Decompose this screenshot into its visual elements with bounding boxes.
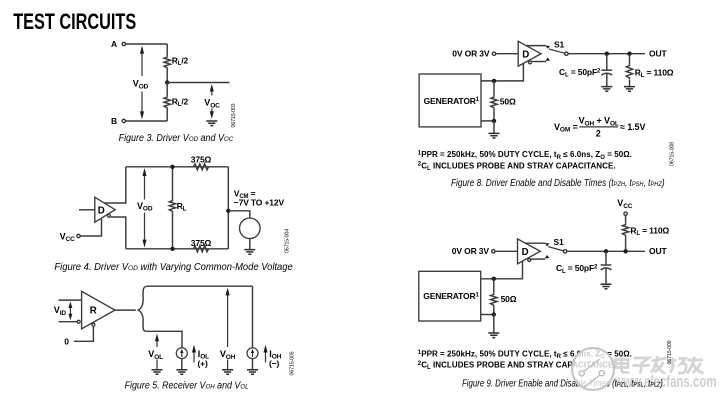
svg-text:Figure 3. Driver VOD and VOC: Figure 3. Driver VOD and VOC [119,131,234,142]
VOC arrow up [211,91,213,96]
svg-text:2: 2 [596,128,601,138]
svg-text:06715-009: 06715-009 [667,340,673,364]
svg-text:(+): (+) [198,359,208,369]
svg-text:VOH + VOL: VOH + VOL [579,116,619,128]
ground generator [488,333,499,338]
junction CL [605,52,609,56]
wire top rail [147,285,253,287]
VID arrow [69,307,71,316]
svg-text:375Ω: 375Ω [191,154,212,164]
resistor 375 bottom [193,246,208,252]
watermark char dian [616,357,630,373]
svg-text:50Ω: 50Ω [500,96,516,106]
resistor RL/2 upper [164,56,170,68]
terminal A [122,42,125,45]
svg-text:−7V TO +12V: −7V TO +12V [234,197,285,207]
ground VOH [222,370,233,375]
wire generator top [481,64,523,81]
wire bottom branch [147,331,182,347]
VOH arrow [227,295,229,348]
svg-text:RL = 110Ω: RL = 110Ω [635,67,674,79]
watermark char zi [633,358,650,374]
capacitor CL [601,264,612,266]
watermark char you [687,357,704,374]
wire output [115,309,136,311]
wire generator top [481,261,523,279]
svg-text:VOD: VOD [133,79,149,91]
wire to ground [493,315,495,333]
VOC arrow down [211,109,213,113]
terminal input [492,52,495,55]
svg-text:VOH: VOH [220,349,236,361]
svg-text:VCC: VCC [617,198,633,210]
svg-text:06715-003: 06715-003 [231,103,237,127]
wire R1 to junction [166,69,168,83]
wire VCC to triangle [80,219,101,236]
svg-text:0: 0 [64,337,69,347]
input wire [79,209,95,211]
VOD arrow [144,174,146,242]
svg-text:GENERATOR1: GENERATOR1 [423,291,479,301]
bubble input [77,320,80,323]
watermark ring logo [572,348,614,390]
wire CL to ground [605,269,607,284]
wire RL to junction [625,236,627,251]
ground IOL [176,370,187,375]
wire IOL to ground [181,359,183,370]
switch throw top [546,46,551,49]
wire top corner down to R1 [166,44,168,56]
svg-text:(−): (−) [269,359,279,369]
wire bottom corner to B [126,120,168,122]
svg-text:S1: S1 [554,237,565,247]
wire A to top corner [126,43,168,45]
svg-text:06715-005: 06715-005 [290,351,296,375]
wire to CL [606,54,608,70]
svg-text:VOM =: VOM = [554,122,578,134]
wire bottom rail [126,248,229,250]
svg-text:1PPR = 250kHz, 50% DUTY CYCLE,: 1PPR = 250kHz, 50% DUTY CYCLE, tR ≤ 6.0n… [418,150,632,161]
resistor RL/2 lower [164,96,170,109]
svg-text:VID: VID [54,305,67,317]
wire enable to 0 [74,327,94,342]
bubble enable [92,323,95,326]
watermark plug pin right [584,375,600,388]
capacitor CL [601,69,612,71]
svg-text:GENERATOR1: GENERATOR1 [424,96,480,106]
IOH arrow [265,352,267,363]
junction 50 bottom [492,312,496,316]
svg-text:0V OR 3V: 0V OR 3V [452,246,490,256]
resistor RL [622,224,628,237]
wire input [495,250,517,252]
svg-text:50Ω: 50Ω [501,294,517,304]
wire 50 bottom [493,306,495,314]
source VCM circle [240,218,261,239]
wire to 50 [493,81,495,96]
svg-text:TEST CIRCUITS: TEST CIRCUITS [13,9,136,34]
output bubble [107,214,110,217]
svg-text:Figure 5. Receiver VOH and VOL: Figure 5. Receiver VOH and VOL [125,380,249,390]
wire right drop [252,286,254,348]
resistor RL [169,200,175,213]
wire input [496,53,518,55]
svg-text:CL = 50pF2: CL = 50pF2 [559,67,601,79]
VOD arrow [141,52,143,113]
svg-text:2CL INCLUDES PROBE AND STRAY C: 2CL INCLUDES PROBE AND STRAY CAPACITANCE… [418,161,616,172]
wire to OUT [568,53,645,55]
node VCM junction [226,209,230,213]
svg-text:OUT: OUT [649,246,667,256]
output bubble [528,61,531,64]
driver D triangle U1 [95,197,115,222]
wire input bottom [59,321,77,323]
watermark char fa [651,356,667,374]
wire bottom output [111,217,126,249]
svg-text:S1: S1 [554,39,565,49]
svg-text:RL/2: RL/2 [172,55,189,67]
svg-text:RL/2: RL/2 [172,96,189,108]
switch lever S1 [548,247,563,251]
current source IOH [247,348,258,359]
wire generator bottom [481,120,494,122]
svg-text:Figure 9. Driver Enable and Di: Figure 9. Driver Enable and Disable Time… [462,378,663,389]
svg-text:06715-008: 06715-008 [670,142,676,166]
wire to OUT [567,250,645,252]
junction 50 top [492,277,496,281]
wire to CL [605,251,607,264]
wire input top [59,299,82,301]
ground VOL [152,370,163,375]
junction RL [627,52,631,56]
wire junction to right [167,82,229,84]
wire generator bottom [481,314,494,316]
ground fig3 [206,121,217,126]
wire to ground [493,121,495,133]
driver D triangle U4 [518,239,541,264]
resistor 50 [491,96,497,109]
switch throw top [545,243,550,246]
ground CL [601,87,612,92]
receiver R triangle U2 [82,291,115,329]
ground fig4 [244,250,255,255]
switch pole terminal [563,250,566,253]
resistor RL [626,64,632,79]
driver D triangle U3 [518,41,541,66]
svg-text:OUT: OUT [649,49,667,59]
ground CL [601,284,612,289]
watermark char shao [669,358,687,374]
svg-text:B: B [111,116,117,126]
svg-text:RL: RL [177,201,187,213]
svg-text:VOD: VOD [137,201,153,213]
wire bottom output [532,61,546,63]
wire to 50 [493,279,495,294]
wire source to ground [249,239,251,250]
wire CL to ground [606,74,608,87]
resistor 375 top [193,164,208,170]
generator box [419,271,481,321]
terminal VCC [77,234,80,237]
junction RL [623,249,627,253]
svg-text:≈ 1.5V: ≈ 1.5V [620,122,645,132]
switch throw bottom [546,57,551,60]
output bubble [528,259,531,262]
ground IOH [247,370,258,375]
resistor 50 [491,294,497,307]
svg-text:VCC: VCC [60,231,76,243]
wire RL to ground [629,79,631,86]
generator box [419,74,481,127]
wire top output [526,45,546,47]
wire top output [105,167,126,203]
svg-text:A: A [111,39,117,49]
wire IOH to ground [252,359,254,370]
wire right side [227,167,229,249]
wire bottom output [531,258,545,260]
ground RL [624,87,635,92]
svg-text:D: D [522,247,529,258]
terminal VCC [624,212,627,215]
svg-text:375Ω: 375Ω [191,238,212,248]
wire VCC to RL [625,216,627,224]
svg-text:0V OR 3V: 0V OR 3V [452,49,490,59]
switch lever S1 [549,49,565,53]
junction RL bottom [170,247,174,251]
wire to RL [629,54,631,65]
wire top output [526,242,546,244]
junction CL [604,249,608,253]
junction RL top [170,165,174,169]
junction 50 top [492,79,496,83]
svg-text:Figure 4. Driver VOD with Vary: Figure 4. Driver VOD with Varying Common… [54,262,292,273]
svg-text:Figure 8. Driver Enable and Di: Figure 8. Driver Enable and Disable Time… [451,177,665,188]
wire to source [228,211,250,218]
wire RL bottom [172,212,174,249]
svg-text:VOC: VOC [204,98,220,110]
brace [138,286,146,331]
terminal B [122,119,125,122]
svg-text:D: D [98,205,105,216]
switch throw bottom [545,255,550,258]
wire RL top [172,167,174,200]
wire R2 to bottom corner [166,109,168,121]
svg-text:CL = 50pF2: CL = 50pF2 [556,263,598,275]
svg-text:RL = 110Ω: RL = 110Ω [630,226,669,238]
wire junction down to R2 [166,83,168,97]
wire 50 bottom [493,109,495,121]
watermark plug pin left [584,359,600,371]
wire top rail [126,166,229,168]
svg-text:R: R [90,306,97,317]
terminal input [492,250,495,253]
switch pole terminal [565,52,568,55]
current source IOL [176,348,187,359]
svg-text:06715-004: 06715-004 [285,229,291,253]
svg-text:D: D [522,50,529,61]
svg-text:VOL: VOL [148,349,163,361]
ground generator [489,133,500,138]
node junction [165,80,169,84]
IOL arrow [193,352,195,363]
junction 50 bottom [492,119,496,123]
VOL arrow [156,340,158,347]
